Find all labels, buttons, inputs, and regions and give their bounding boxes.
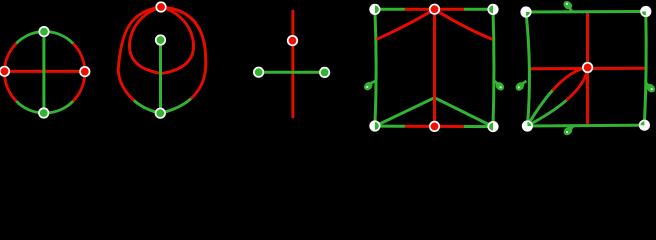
node top-left half-green — [369, 4, 380, 15]
wire: circle arc red left-top (180deg to 225deg) — [4, 44, 16, 73]
wire: outer loop left branch green bottom — [134, 100, 160, 113]
wire: green bottom edge — [527, 124, 644, 128]
node top green — [38, 26, 49, 37]
node fig5 bottom-right quarter-green — [639, 120, 650, 131]
node top red — [155, 1, 166, 12]
wire: lens upper curve green half — [527, 90, 552, 125]
wire: inner red self-loop left branch — [129, 7, 161, 74]
node right red — [79, 66, 90, 77]
wire: outer loop right branch green bottom — [160, 99, 191, 114]
wire: lens lower curve green half — [527, 100, 566, 126]
wire: green diagonal bottom-right to apex — [435, 98, 494, 127]
wire: top edge green left part — [375, 8, 405, 11]
wire: red diagonal from top-middle to left edge — [377, 9, 435, 39]
node middle green — [155, 34, 166, 45]
node bottom-right half-green — [487, 121, 498, 132]
loop green bottom edge fig5 — [562, 125, 574, 137]
wire: green left edge (slightly bowed) — [526, 12, 529, 126]
wire: circle arc green top-right (270 to 315) — [45, 32, 73, 44]
loop green right (self-loop on right edge) — [494, 80, 506, 92]
wire: green vertical edge — [159, 40, 162, 113]
wire: inner red self-loop right branch — [161, 7, 194, 74]
node bottom green — [38, 107, 49, 118]
node red on vertical — [287, 35, 298, 46]
wire: circle arc red right-bottom — [73, 72, 85, 101]
wire: red horizontal diameter — [5, 70, 85, 73]
loop green left edge fig5 — [514, 81, 527, 93]
node top-middle red — [429, 4, 440, 15]
wire: circle arc green bottom-left — [16, 101, 44, 113]
node fig5 top-left quarter-green — [520, 6, 531, 17]
loop green top edge fig5 — [562, 0, 574, 11]
node bottom-middle red — [429, 121, 440, 132]
wire: lens lower curve red half — [566, 68, 587, 101]
wire: green vertical diameter — [42, 32, 45, 113]
wire: bottom edge green left part — [375, 125, 405, 128]
wire: green top edge — [526, 10, 646, 14]
wire: outer loop left branch red — [118, 7, 161, 100]
loop green right edge fig5 — [645, 82, 656, 94]
wire: red vertical cross line — [586, 12, 589, 125]
wire: green right edge — [644, 12, 646, 126]
node bottom-left half-green — [369, 120, 380, 131]
wire: red diagonal from top-middle to right edge — [435, 9, 493, 39]
wire: top edge red middle part — [405, 8, 464, 11]
wire: outer loop right branch red — [161, 7, 206, 99]
node fig5 top-right quarter-green — [640, 6, 651, 17]
wire: red horizontal cross line — [529, 67, 646, 71]
node top-right half-green — [487, 4, 498, 15]
wire: green horizontal path — [259, 71, 325, 74]
node green right — [319, 67, 330, 78]
wire: green right edge — [492, 9, 496, 126]
wire: circle arc red right-top (315 to 360) — [73, 44, 85, 73]
node fig5 center red — [582, 62, 593, 73]
wire: red vertical middle edge — [433, 9, 436, 126]
wire: top edge green right part — [464, 8, 493, 11]
wire: bottom edge red middle part — [405, 125, 464, 128]
wire: circle arc red left-bottom — [4, 72, 16, 101]
wire: green left edge — [375, 9, 376, 126]
wire: lens upper curve red half (center to corner) — [553, 68, 588, 91]
node left red — [0, 66, 10, 77]
wire: circle arc green top-left (225deg to 270deg) — [16, 32, 44, 44]
node bottom green — [155, 108, 166, 119]
node green left — [253, 67, 264, 78]
loop green left (self-loop on left edge) — [362, 80, 376, 92]
wire: green diagonal bottom-left to apex — [375, 98, 434, 126]
wire: red vertical path — [291, 10, 294, 118]
node fig5 bottom-left quarter-green — [522, 120, 533, 131]
wire: bottom edge green right part — [464, 125, 493, 128]
wire: circle arc green bottom-right — [45, 101, 73, 113]
